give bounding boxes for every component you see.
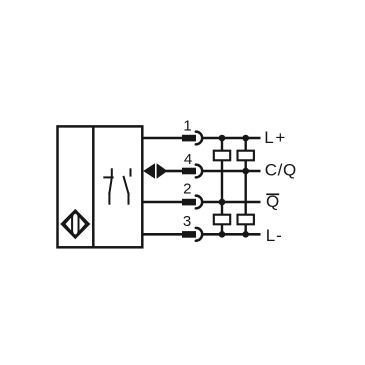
load resistor R4 (C/Q to L-) xyxy=(238,215,254,225)
wire pin4 left segment xyxy=(166,170,182,173)
svg-text:C/Q: C/Q xyxy=(265,161,297,180)
net label Qbar overline xyxy=(266,193,279,195)
left load bus wire xyxy=(221,138,223,234)
right load bus wire xyxy=(244,138,246,234)
load resistor R3 (Qbar to L-) xyxy=(214,215,230,225)
connector pin 3 plug xyxy=(182,231,196,238)
wire pin3 left segment xyxy=(142,233,182,236)
wire Qbar right segment xyxy=(203,201,261,204)
connector pin 3 socket arc xyxy=(196,228,202,241)
IO-Link bidirectional arrow xyxy=(143,163,167,179)
load resistor R2 (L+ to C/Q) xyxy=(238,151,254,161)
connector pin 1 socket arc xyxy=(196,132,202,145)
wire L+ right segment xyxy=(203,137,261,140)
wire L- right segment xyxy=(203,233,261,236)
junction L+ / left bus xyxy=(219,135,226,142)
connector pin 4 plug xyxy=(182,168,196,175)
svg-text:L+: L+ xyxy=(264,128,287,147)
NC contact K1 xyxy=(104,169,112,203)
svg-text:2: 2 xyxy=(183,181,191,198)
connector pin 2 socket arc xyxy=(196,196,202,209)
wire pin1 left segment xyxy=(142,137,182,140)
sensor body outline U1 xyxy=(58,126,143,247)
sensor body divider xyxy=(92,126,95,247)
svg-text:1: 1 xyxy=(183,118,191,135)
svg-text:3: 3 xyxy=(183,213,191,230)
junction L- / left bus xyxy=(219,231,226,238)
connector pin 4 socket arc xyxy=(196,165,202,178)
wire C/Q right segment xyxy=(203,170,261,173)
connector pin 1 plug xyxy=(182,135,196,142)
connector pin 2 plug xyxy=(182,199,196,206)
junction L+ / right bus xyxy=(242,135,249,142)
svg-text:L-: L- xyxy=(266,226,283,245)
junction C/Q / right bus xyxy=(242,168,249,175)
load resistor R1 (L+ to Qbar) xyxy=(214,151,230,161)
svg-text:4: 4 xyxy=(184,151,192,168)
junction Qbar / left bus xyxy=(219,199,226,206)
inductive sensor face symbol (diamond) xyxy=(62,211,89,238)
wire pin2 left segment xyxy=(142,201,182,204)
junction L- / right bus xyxy=(242,231,249,238)
NO contact K2 xyxy=(124,169,131,203)
